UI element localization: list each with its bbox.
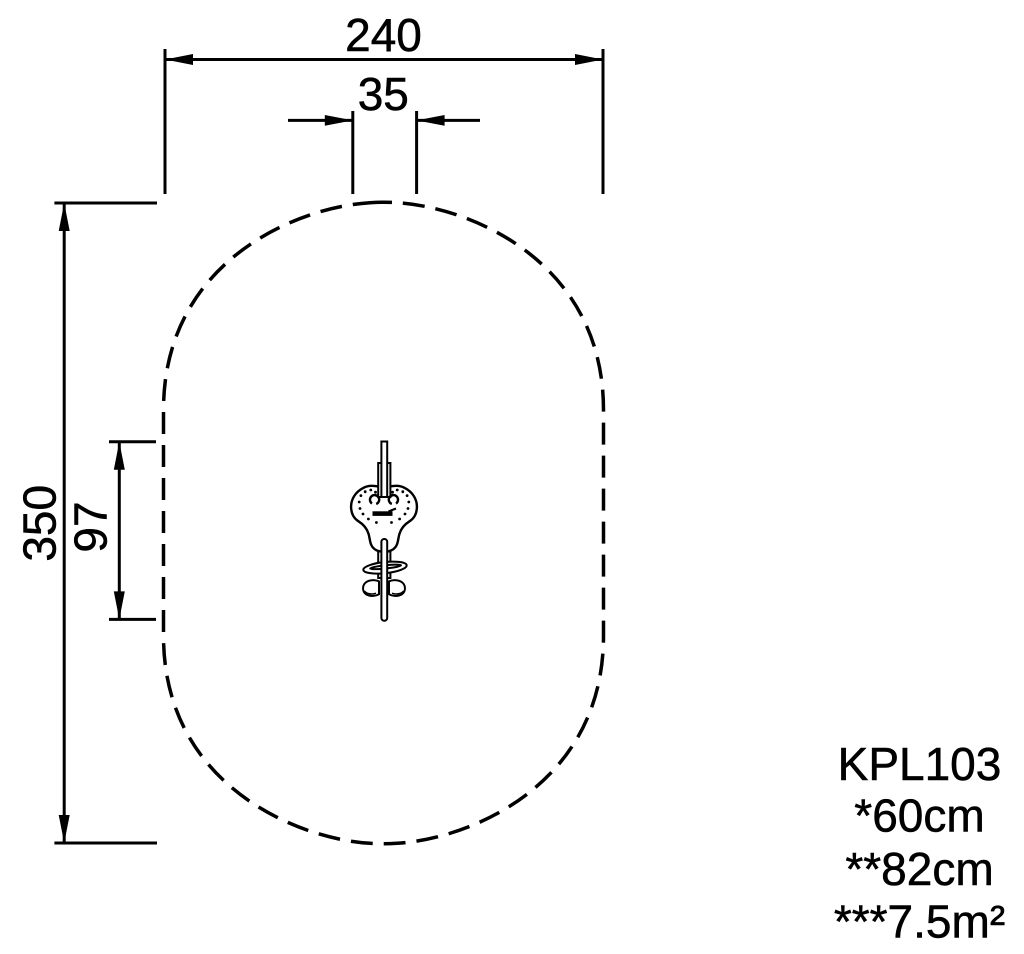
- svg-text:**82cm: **82cm: [845, 843, 993, 895]
- svg-text:***7.5m²: ***7.5m²: [834, 896, 1005, 948]
- svg-text:*60cm: *60cm: [854, 790, 984, 842]
- svg-text:35: 35: [358, 68, 409, 120]
- svg-text:240: 240: [345, 9, 422, 61]
- svg-text:KPL103: KPL103: [838, 738, 1002, 790]
- svg-text:97: 97: [64, 501, 116, 552]
- svg-text:350: 350: [13, 485, 65, 562]
